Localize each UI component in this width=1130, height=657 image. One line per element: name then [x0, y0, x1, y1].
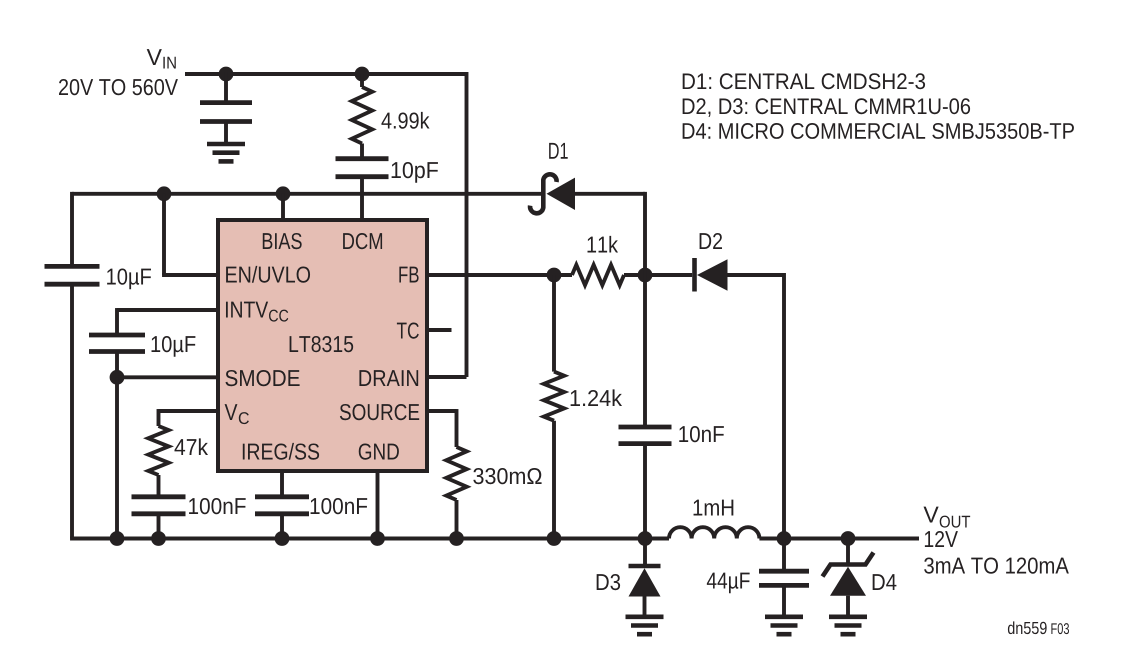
resistor 4.99k	[352, 87, 372, 144]
U1 pin label TC	[397, 322, 419, 338]
label 10uF bypass	[152, 336, 196, 357]
wire SMODE pin	[117, 375, 218, 379]
wire DCM riser from 10pF	[360, 177, 364, 220]
U1 pin label IREG/SS	[243, 443, 319, 460]
label 10pF	[392, 162, 438, 183]
wire bottom rail right	[759, 537, 919, 541]
U1 pin label FB	[399, 267, 418, 283]
wire 10nF to rail	[643, 444, 647, 539]
wire 330mohm to rail	[455, 500, 459, 539]
wire 44uF to ground	[782, 585, 786, 616]
node rail at 100nF IREG	[275, 531, 290, 546]
node rail at D4	[841, 531, 856, 546]
label D1	[549, 143, 568, 159]
diode D4 triangle	[830, 567, 866, 596]
wire CIN to ground	[224, 122, 228, 145]
wire DRAIN pin to riser	[429, 375, 467, 379]
ground D4	[829, 614, 867, 619]
label 44uF	[707, 573, 750, 594]
diode D3 bar	[629, 564, 661, 569]
wire D1 anode	[575, 192, 645, 196]
ground D3	[626, 614, 664, 619]
diode D2 triangle	[697, 259, 728, 290]
node BIAS net at BIAS pin	[276, 186, 291, 201]
label 11k	[588, 236, 619, 253]
note D1 part	[683, 73, 925, 89]
capacitor 100nF VC	[132, 494, 186, 499]
capacitor 44uF	[759, 569, 809, 574]
node rail at D3 / 10nF	[638, 531, 653, 546]
node rail at 1.24k	[547, 531, 562, 546]
U1 pin label SMODE	[225, 370, 299, 386]
wire D3 to ground	[643, 597, 647, 617]
U1 pin label INTVCC	[226, 302, 268, 318]
node rail at 44uF	[777, 531, 792, 546]
label figure number dn559 F03	[1008, 621, 1047, 634]
wire 1.24k to rail	[552, 421, 556, 539]
wire EN/UVLO pin	[162, 273, 218, 277]
wire SOURCE pin	[429, 409, 457, 413]
label D2	[700, 233, 722, 249]
wire 10uF2 to SMODE node	[115, 352, 119, 378]
resistor 47k	[148, 426, 168, 475]
capacitor 100nF IREG	[255, 494, 309, 499]
wire VC pin	[159, 409, 219, 413]
label 20V TO 560V	[59, 79, 178, 95]
capacitor CIN	[200, 100, 252, 105]
label D4	[873, 574, 897, 590]
label 10uF input	[107, 268, 151, 289]
resistor 1.24k	[544, 372, 564, 421]
wire 100nF IREG to rail	[280, 514, 284, 539]
label 330mohm	[473, 468, 541, 484]
wire DRAIN riser	[465, 72, 469, 377]
label 12V	[925, 531, 958, 547]
label VOUT	[924, 507, 939, 523]
capacitor 10nF	[619, 425, 672, 430]
label D3	[597, 574, 620, 590]
wire D4 stub	[846, 539, 850, 565]
wire left rail corner	[70, 192, 74, 264]
wire 11k to D2	[624, 273, 692, 277]
resistor 330mohm	[446, 447, 466, 500]
wire VC riser	[157, 409, 161, 426]
diode D4 zener bar	[823, 553, 874, 577]
ground 44uF	[765, 614, 803, 619]
capacitor CIN stub	[224, 72, 228, 101]
wire D1 corner down to FB	[643, 192, 647, 275]
label 3mA TO 120mA	[924, 557, 1069, 573]
label 1mH	[694, 500, 734, 516]
diode D1 schottky bar	[530, 174, 557, 213]
wire D2 output riser down	[782, 273, 786, 538]
node VIN junction at 4.99k	[355, 67, 370, 82]
node rail at 10uF2	[110, 531, 125, 546]
wire FB pin to 11k	[429, 273, 572, 277]
U1 pin label SOURCE	[340, 404, 419, 420]
U1 pin label VC	[225, 404, 238, 420]
capacitor 10uF input left rail	[45, 264, 100, 269]
node BIAS net at EN/UVLO riser	[157, 186, 172, 201]
label 10nF	[679, 426, 724, 442]
inductor L1 1mH	[669, 527, 759, 538]
node FB at 1.24k	[547, 268, 562, 283]
node rail at GND pin	[370, 531, 385, 546]
wire D3 stub	[643, 539, 647, 567]
wire D2 to output riser	[728, 273, 785, 277]
U1 name LT8315	[290, 336, 354, 352]
wire EN/UVLO riser	[162, 194, 166, 275]
label 47k	[174, 438, 208, 455]
wire FB to 1.24k	[552, 275, 556, 372]
op-amp U1 LT8315 body	[218, 220, 427, 471]
diode D3 triangle	[629, 568, 661, 596]
label 100nF VC	[189, 498, 246, 514]
label VIN	[147, 49, 162, 65]
wire bottom rail left	[70, 537, 669, 541]
wire left rail lower	[70, 284, 74, 538]
node rail at 330mohm	[449, 531, 464, 546]
wire SOURCE riser	[455, 409, 459, 447]
diode D1 triangle	[547, 178, 576, 210]
wire 44uF stub	[782, 539, 786, 572]
diode D2 bar	[692, 258, 697, 292]
capacitor 10uF bypass	[89, 333, 145, 338]
wire SMODE node to rail	[115, 377, 119, 538]
wire IREG/SS pin riser	[280, 471, 284, 497]
U1 pin label DCM	[343, 233, 382, 249]
wire D4 to ground	[846, 596, 850, 617]
ground CIN	[207, 142, 245, 147]
wire BIAS pin riser	[281, 194, 285, 220]
node FB-D1 junction	[638, 268, 653, 283]
wire GND pin riser	[376, 471, 380, 539]
U1 pin label GND	[359, 443, 399, 459]
wire 4.99k to 10pF	[360, 144, 364, 159]
wire BIAS net horizontal	[72, 192, 541, 196]
note D2 D3 part	[683, 98, 970, 117]
U1 pin label DRAIN	[359, 370, 418, 386]
label 4.99k	[381, 112, 429, 129]
wire INTVCC pin	[117, 308, 218, 312]
note D4 part	[683, 123, 1074, 139]
node SMODE junction	[110, 370, 125, 385]
wire INTVCC riser to 10uF2	[115, 308, 119, 333]
resistor 11k	[572, 265, 624, 285]
wire 100nF VC to rail	[157, 514, 161, 539]
label 100nF IREG	[311, 498, 368, 514]
label 1.24k	[571, 389, 622, 406]
wire 47k to 100nF	[157, 475, 161, 497]
wire VIN top rail	[185, 72, 467, 76]
node rail at 100nF VC	[151, 531, 166, 546]
U1 pin label EN/UVLO	[226, 266, 310, 283]
capacitor 10pF	[336, 156, 389, 161]
wire TC stub	[429, 328, 452, 332]
wire FB node to 10nF	[643, 275, 647, 427]
U1 pin label BIAS	[263, 233, 302, 249]
node VIN junction at input cap	[219, 67, 234, 82]
resistor 4.99k stub from VIN	[360, 74, 364, 87]
